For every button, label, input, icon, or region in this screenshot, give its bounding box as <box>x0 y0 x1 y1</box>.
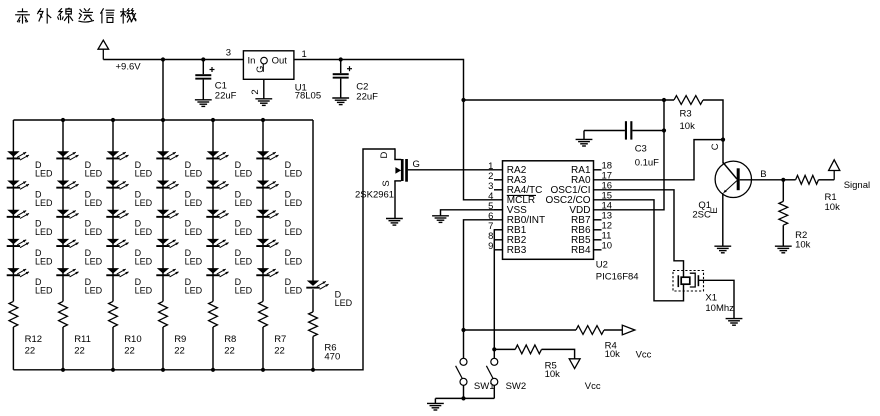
wire RB1 to R5 <box>494 348 515 350</box>
label D LED col4 row3 <box>185 219 203 238</box>
label G <box>413 159 420 170</box>
capacitor C1 <box>195 67 214 80</box>
node rail-C1 <box>201 57 205 61</box>
svg-text:In: In <box>248 56 256 67</box>
svg-text:0.1uF: 0.1uF <box>635 157 659 168</box>
svg-text:10: 10 <box>602 240 613 251</box>
label pin 2 (rotated) <box>250 89 261 94</box>
label D LED col5 row5 <box>235 277 253 296</box>
LED D col6 row5 <box>256 268 278 277</box>
svg-text:22: 22 <box>124 345 135 356</box>
svg-text:R11: R11 <box>74 334 91 345</box>
node top bus x=213 <box>211 118 215 122</box>
svg-text:LED: LED <box>35 286 53 296</box>
svg-text:LED: LED <box>35 169 53 179</box>
wire Vcc to MCLR (pin4) <box>464 100 503 200</box>
wire U1 pin2 <box>263 79 265 99</box>
Vcc arrow right <box>622 325 635 335</box>
svg-text:LED: LED <box>85 198 103 208</box>
label R1 10k <box>825 192 841 213</box>
wire R10 to bottom bus <box>112 327 114 370</box>
svg-text:R8: R8 <box>224 334 236 345</box>
transistor Q 2SK2961 drain lead <box>394 148 401 159</box>
wire RB1 down (pin7) <box>494 230 502 350</box>
LED D col3 row1 <box>106 151 128 160</box>
LED D col3 row5 <box>106 268 128 277</box>
label Signal <box>844 180 870 191</box>
wire LED column 4 <box>162 120 164 301</box>
node C3-VDD <box>662 128 666 132</box>
ground 2SK2961 source <box>386 219 403 226</box>
label R3 10k <box>680 108 696 132</box>
label D LED col2 row4 <box>85 248 103 266</box>
wire to SW2 <box>493 349 495 358</box>
wire VDD to +5V (pin14) <box>594 100 665 210</box>
LED D col4 row3 <box>156 210 178 219</box>
svg-text:LED: LED <box>185 227 203 237</box>
svg-text:2SK2961: 2SK2961 <box>355 189 394 200</box>
LED D col3 row2 <box>106 181 128 190</box>
signal arrow <box>829 160 840 171</box>
label D LED col1 row5 <box>35 277 53 296</box>
label D LED col2 row2 <box>85 189 103 208</box>
wire C2 top <box>340 60 342 74</box>
ground R2 <box>775 246 792 253</box>
LED D col6 row4 <box>256 239 278 248</box>
svg-text:Out: Out <box>272 56 288 67</box>
label D LED col3 row5 <box>135 277 153 296</box>
wire X1 to ground <box>698 280 734 318</box>
wire Q1 emitter <box>722 193 724 246</box>
label D LED col2 row5 <box>85 277 103 296</box>
svg-text:22: 22 <box>25 345 36 356</box>
wire +9.6V rail left <box>103 59 243 61</box>
wire gate to RA2 <box>408 169 503 171</box>
wire R12 to bottom bus <box>12 327 14 370</box>
svg-text:2SC: 2SC <box>692 209 711 220</box>
U2 right pin numbers <box>602 160 613 251</box>
LED D col4 row1 <box>156 151 178 160</box>
resistor R4 10k <box>576 326 604 335</box>
wire to SW1 <box>463 330 465 359</box>
wire collector <box>722 140 724 164</box>
U2 right pin names <box>545 165 590 256</box>
wire LED column 5 <box>212 120 214 301</box>
LED D col2 row3 <box>56 210 78 219</box>
svg-text:LED: LED <box>85 227 103 237</box>
svg-text:LED: LED <box>285 198 303 208</box>
label D LED col4 row1 <box>185 160 203 179</box>
ground U1 <box>255 99 272 106</box>
svg-text:10k: 10k <box>605 349 621 360</box>
LED D col3 row3 <box>106 210 128 219</box>
wire +9.6V rail right <box>294 60 464 101</box>
svg-text:R7: R7 <box>274 334 286 345</box>
label X1 10Mhz <box>705 292 734 314</box>
svg-text:S: S <box>381 180 392 186</box>
resistor R7 22 <box>259 301 268 327</box>
wire LED bottom bus to MOSFET drain <box>13 149 395 370</box>
wire R1 to arrow <box>819 171 835 180</box>
node SW1 ground <box>461 396 465 400</box>
svg-text:C: C <box>710 143 721 150</box>
wire SW1 bottom <box>463 385 465 398</box>
resistor R12 22 <box>9 301 18 327</box>
label C2 22uF <box>356 81 378 102</box>
label C3 0.1uF <box>635 143 659 168</box>
LED D col5 row5 <box>206 268 228 277</box>
wire column 7 top <box>312 120 314 281</box>
resistor R10 22 <box>109 301 118 327</box>
LED D col2 row5 <box>56 268 78 277</box>
label D (rotated) <box>379 151 390 158</box>
svg-text:1: 1 <box>302 49 307 60</box>
label D LED col2 row3 <box>85 219 103 238</box>
label D LED col6 row5 <box>285 277 303 296</box>
label R5 10k <box>545 360 561 380</box>
Q1 emitter diagonal <box>724 181 737 193</box>
label C (rotated) <box>710 143 721 150</box>
node bottom bus x=63 <box>61 368 65 372</box>
node bottom bus x=113 <box>111 368 115 372</box>
svg-text:R3: R3 <box>680 108 692 119</box>
wire R4 to Vcc arrow <box>604 329 622 331</box>
wire LED column 6 <box>262 120 264 301</box>
resistor R5 10k <box>515 345 541 354</box>
Vcc arrow down <box>569 359 580 369</box>
node base <box>781 178 785 182</box>
title 赤外線送信機 (infrared transmitter) <box>16 8 136 23</box>
label B <box>760 169 766 180</box>
svg-text:22uF: 22uF <box>356 92 378 103</box>
wire RB0 to R4 <box>464 329 577 331</box>
wire RA0 to collector (pin17) <box>594 140 724 180</box>
wire R7 to bottom bus <box>262 327 264 370</box>
label D LED col4 row2 <box>185 189 203 208</box>
svg-text:470: 470 <box>324 352 340 363</box>
label D LED col1 row1 <box>35 160 53 179</box>
svg-text:U2: U2 <box>596 259 608 270</box>
label Q1 2SC <box>692 200 711 220</box>
ground C3 <box>576 139 593 146</box>
svg-text:Signal: Signal <box>844 180 870 191</box>
svg-text:10k: 10k <box>795 240 811 251</box>
svg-text:3: 3 <box>226 48 231 59</box>
svg-text:LED: LED <box>85 169 103 179</box>
X1 crystal body <box>681 277 690 284</box>
svg-text:LED: LED <box>235 198 253 208</box>
ground Q1 emitter <box>714 246 731 253</box>
wire C1 top <box>202 60 204 75</box>
svg-text:LED: LED <box>135 227 153 237</box>
svg-text:R10: R10 <box>124 334 141 345</box>
label D LED col3 row4 <box>135 248 153 266</box>
label D LED col6 row1 <box>285 160 303 179</box>
label E (rotated) <box>709 207 720 213</box>
2SK2961 source lead <box>394 181 401 219</box>
2SK2961 arrow <box>395 167 401 174</box>
LED D col2 row2 <box>56 181 78 190</box>
transistor Q1 circle <box>715 161 751 197</box>
svg-text:10k: 10k <box>545 369 561 380</box>
switch SW1 <box>456 358 467 385</box>
svg-text:LED: LED <box>235 256 253 266</box>
wire SW2 bottom <box>493 385 495 398</box>
Q1 collector diagonal <box>723 163 737 180</box>
svg-text:LED: LED <box>285 256 303 266</box>
LED D col1 row2 <box>7 181 29 190</box>
power symbol +9.6V arrow <box>98 40 109 59</box>
label Vcc (R5) <box>585 381 601 392</box>
label SW1 <box>474 381 495 392</box>
wire base to R2 <box>782 180 784 202</box>
svg-text:22: 22 <box>174 345 185 356</box>
wire switch ground bus <box>435 398 494 403</box>
svg-text:LED: LED <box>235 227 253 237</box>
svg-text:LED: LED <box>35 198 53 208</box>
svg-text:22: 22 <box>224 345 235 356</box>
label R4 10k <box>605 340 621 360</box>
wire Q1 base <box>740 179 784 181</box>
label SW2 <box>506 381 527 392</box>
label R7 22 <box>274 334 286 356</box>
node bottom bus x=313 <box>311 368 315 372</box>
node top bus x=263 <box>261 118 265 122</box>
svg-text:RB4: RB4 <box>571 245 591 256</box>
label R6 470 <box>324 342 340 362</box>
LED D col5 row4 <box>206 239 228 248</box>
svg-text:G: G <box>255 66 265 73</box>
wire col7 LED to R6 <box>312 289 314 312</box>
label D LED col5 row3 <box>235 219 253 238</box>
wire base to R1 <box>783 179 795 181</box>
LED D col6 row3 <box>256 210 278 219</box>
svg-text:22uF: 22uF <box>215 90 237 101</box>
wire LED top bus <box>13 119 313 121</box>
label D LED col1 row3 <box>35 219 53 238</box>
capacitor C3 0.1uF <box>625 121 632 139</box>
LED D col4 row5 <box>156 268 178 277</box>
label U1 78L05 <box>295 82 321 101</box>
node Vcc corner <box>461 98 465 102</box>
svg-text:LED: LED <box>135 169 153 179</box>
LED D col1 row5 <box>7 268 29 277</box>
resistor R8 22 <box>209 301 218 327</box>
LED D col4 row4 <box>156 239 178 248</box>
svg-text:LED: LED <box>135 198 153 208</box>
svg-text:LED: LED <box>185 286 203 296</box>
svg-text:LED: LED <box>285 227 303 237</box>
LED D col5 row1 <box>206 151 228 160</box>
node RB0-R4-SW1 <box>461 328 465 332</box>
svg-text:LED: LED <box>135 286 153 296</box>
label R11 22 <box>74 334 91 356</box>
LED D col1 row3 <box>7 210 29 219</box>
label D LED col5 row2 <box>235 189 253 208</box>
pin 3 label <box>226 48 231 59</box>
resistor R3 10k <box>674 96 703 105</box>
switch SW2 <box>486 358 497 385</box>
2SK2961 channel bar <box>401 159 404 181</box>
svg-text:D: D <box>379 151 390 158</box>
pin 1 label <box>302 49 307 60</box>
label D LED col4 row5 <box>185 277 203 296</box>
LED D col1 row4 <box>7 239 29 248</box>
LED D col6 row1 <box>256 151 278 160</box>
label D LED col1 row4 <box>35 248 53 266</box>
svg-text:78L05: 78L05 <box>295 90 321 101</box>
ground C1 <box>195 100 212 107</box>
svg-text:10Mhz: 10Mhz <box>705 303 734 314</box>
capacitor C2 <box>333 66 352 78</box>
svg-text:10k: 10k <box>825 202 841 213</box>
node top bus x=63 <box>61 118 65 122</box>
label D LED col1 row2 <box>35 189 53 208</box>
label D LED col7 <box>335 289 353 308</box>
node top bus x=163 <box>161 118 165 122</box>
LED D col1 row1 <box>7 151 29 160</box>
LED D col4 row2 <box>156 181 178 190</box>
node top bus x=113 <box>111 118 115 122</box>
svg-text:LED: LED <box>185 198 203 208</box>
label R9 22 <box>174 334 186 356</box>
wire C1 bottom <box>202 80 204 100</box>
svg-text:LED: LED <box>35 227 53 237</box>
svg-text:B: B <box>760 169 766 180</box>
ground VSS <box>432 216 449 223</box>
node rail-LED feed <box>161 57 165 61</box>
label D LED col6 row2 <box>285 189 303 208</box>
label D LED col4 row4 <box>185 248 203 266</box>
node bottom bus x=213 <box>211 368 215 372</box>
label R2 10k <box>795 230 811 251</box>
LED D col2 row4 <box>56 239 78 248</box>
wire OSC1 to X1 (pin16) <box>594 190 684 277</box>
U2 right pin leads <box>594 170 602 250</box>
svg-text:LED: LED <box>35 256 53 266</box>
svg-text:LED: LED <box>285 169 303 179</box>
svg-text:LED: LED <box>335 298 353 308</box>
U2 left pin leads <box>494 180 503 250</box>
ground switches <box>427 403 444 410</box>
label R8 22 <box>224 334 236 356</box>
svg-text:9: 9 <box>488 241 493 252</box>
wire LED feed <box>162 60 164 121</box>
label D LED col3 row1 <box>135 160 153 179</box>
label 2SK2961 <box>355 189 394 200</box>
Q1 base bar <box>737 168 740 190</box>
resistor R11 22 <box>59 301 68 327</box>
svg-text:LED: LED <box>285 286 303 296</box>
label D LED col2 row1 <box>85 160 103 179</box>
resistor R2 10k <box>779 201 788 225</box>
node RB1-R5-SW2 <box>492 347 496 351</box>
svg-text:2: 2 <box>250 89 261 94</box>
svg-text:LED: LED <box>135 256 153 266</box>
wire C3 left <box>584 131 625 140</box>
svg-text:LED: LED <box>85 256 103 266</box>
svg-text:C3: C3 <box>635 143 647 154</box>
resistor R1 10k <box>796 175 819 184</box>
wire +5V to R3 <box>464 99 675 101</box>
wire C2 bottom <box>340 79 342 98</box>
svg-text:RB3: RB3 <box>507 245 527 256</box>
regulator U1 78L05 box <box>243 51 294 80</box>
ground C2 <box>332 98 349 105</box>
wire R9 to bottom bus <box>162 327 164 370</box>
node rail-C2 <box>339 57 343 61</box>
label C1 22uF <box>215 80 237 101</box>
svg-text:LED: LED <box>235 169 253 179</box>
label S (rotated) <box>381 180 392 186</box>
LED D col5 row2 <box>206 181 228 190</box>
label D LED col5 row1 <box>235 160 253 179</box>
wire R3 to collector <box>703 100 723 140</box>
svg-text:LED: LED <box>185 256 203 266</box>
resistor R6 470 <box>309 312 318 337</box>
U2 left pin names <box>507 165 545 256</box>
resonator X1 dashed box <box>673 271 704 292</box>
node VDD rail <box>662 98 666 102</box>
svg-text:22: 22 <box>274 345 285 356</box>
node bottom bus x=263 <box>261 368 265 372</box>
op-amp U2 PIC16F84 box <box>503 161 594 259</box>
label R10 22 <box>124 334 141 356</box>
LED D col6 row2 <box>256 181 278 190</box>
wire OSC2 to X1 (pin15) <box>594 200 684 301</box>
LED D col2 row1 <box>56 151 78 160</box>
node bottom bus x=163 <box>161 368 165 372</box>
label D LED col5 row4 <box>235 248 253 266</box>
wire R6 to bottom bus <box>312 336 314 369</box>
resistor R9 22 <box>159 301 168 327</box>
wire R5 to Vcc arrow <box>542 349 575 358</box>
svg-text:LED: LED <box>235 286 253 296</box>
LED D col7 <box>306 281 328 290</box>
node collector <box>721 138 725 142</box>
label D LED col6 row4 <box>285 248 303 266</box>
svg-text:Vcc: Vcc <box>636 350 652 361</box>
label U2 PIC16F84 <box>596 259 639 282</box>
wire LED column 2 <box>62 120 64 301</box>
svg-text:R9: R9 <box>174 334 186 345</box>
X1 right plates <box>690 273 699 287</box>
svg-text:X1: X1 <box>705 292 717 303</box>
ground X1 <box>726 319 743 326</box>
svg-text:22: 22 <box>74 345 85 356</box>
svg-text:10k: 10k <box>680 121 696 132</box>
wire LED column 1 <box>12 120 14 301</box>
svg-text:SW2: SW2 <box>506 381 527 392</box>
label Vcc (R4) <box>636 350 652 361</box>
svg-text:LED: LED <box>85 286 103 296</box>
wire R2 to ground <box>782 225 784 246</box>
X1 left electrode <box>677 275 679 287</box>
wire C3 right <box>632 130 664 132</box>
label D LED col3 row2 <box>135 189 153 208</box>
label D LED col6 row3 <box>285 219 303 238</box>
svg-text:Vcc: Vcc <box>585 381 601 392</box>
label R12 22 <box>25 334 42 356</box>
svg-text:+9.6V: +9.6V <box>116 61 142 72</box>
wire RB0/INT down (pin6) <box>464 220 503 330</box>
svg-text:R12: R12 <box>25 334 42 345</box>
label +9.6V <box>116 61 142 72</box>
LED D col3 row4 <box>106 239 128 248</box>
label D LED col3 row3 <box>135 219 153 238</box>
2SK2961 gate bar <box>405 159 408 182</box>
wire R11 to bottom bus <box>62 327 64 370</box>
